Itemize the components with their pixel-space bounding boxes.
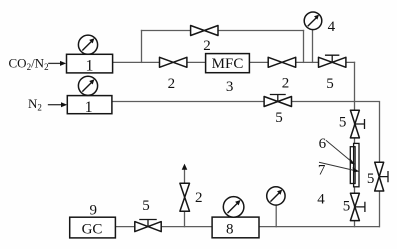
svg-text:2: 2 — [168, 76, 176, 92]
leader line for label 6 — [326, 141, 355, 165]
valve 2 after box 1 — [160, 57, 187, 67]
cylinder regulator box 1 (N2) — [67, 96, 112, 114]
GC box 9 — [70, 217, 116, 238]
wire bypass top line — [142, 30, 304, 32]
svg-text:1: 1 — [85, 99, 93, 116]
svg-text:5: 5 — [339, 114, 347, 130]
wire gauge stem bottom — [275, 205, 277, 227]
svg-text:3: 3 — [226, 79, 234, 95]
MFC box 3 — [206, 54, 250, 73]
valve 5 on N2 line (with handle) — [264, 95, 291, 107]
svg-text:5: 5 — [367, 171, 375, 187]
pressure gauge on box 1 top — [78, 35, 97, 54]
cylinder regulator box 1 (CO2/N2) — [67, 54, 113, 73]
valve 5 vertical right branch (with side handle) — [375, 162, 388, 191]
svg-text:2: 2 — [195, 190, 203, 206]
svg-text:8: 8 — [226, 222, 234, 238]
wire right cell branch vertical — [354, 62, 356, 226]
svg-text:4: 4 — [317, 192, 325, 208]
svg-text:GC: GC — [82, 221, 103, 237]
pressure gauge on box 8 top — [223, 197, 244, 218]
svg-text:6: 6 — [319, 136, 327, 152]
svg-text:5: 5 — [142, 198, 150, 214]
valve 2 on bypass top line — [191, 26, 218, 36]
inlet arrow N2 — [49, 102, 68, 107]
leader line for label 7 — [320, 162, 360, 172]
valve 5 after junction (with handle) — [319, 55, 346, 67]
wire bottom line box8 to right — [259, 226, 379, 228]
inlet arrow CO2/N2 — [49, 61, 66, 66]
svg-text:9: 9 — [89, 202, 97, 218]
pressure gauge 4 top right — [304, 12, 322, 30]
svg-text:2: 2 — [203, 38, 211, 54]
vent valve 2 vertical — [180, 183, 190, 211]
vent arrow — [182, 164, 188, 170]
svg-text:4: 4 — [328, 19, 336, 35]
svg-text:1: 1 — [86, 58, 94, 75]
wire main CO2 line — [113, 61, 355, 63]
svg-text:MFC: MFC — [212, 56, 244, 72]
svg-text:CO2/N2: CO2/N2 — [9, 56, 49, 73]
wire riser left to bypass — [141, 31, 143, 63]
svg-text:2: 2 — [282, 76, 290, 92]
view cell outer jacket 7 — [350, 147, 355, 184]
svg-text:5: 5 — [343, 199, 351, 215]
valve 2 after MFC — [268, 57, 296, 67]
pressure gauge on box 1 (N2) top — [78, 76, 97, 95]
wire riser right of bypass — [303, 31, 305, 63]
svg-text:5: 5 — [275, 110, 283, 126]
valve 5 vertical below cell (with side handle) — [350, 193, 365, 220]
pressure gauge bottom right of box 8 — [267, 187, 285, 205]
valve 5 vertical above cell (with side handle) — [350, 110, 364, 138]
view cell inner tube 6 — [354, 143, 359, 186]
reactor box 8 — [212, 217, 259, 238]
svg-text:N2: N2 — [28, 96, 42, 113]
valve 5 before GC (with handle) — [135, 220, 161, 232]
wire vent stem — [184, 170, 186, 227]
svg-text:5: 5 — [326, 76, 334, 92]
svg-text:7: 7 — [318, 163, 326, 179]
wire bottom line GC to box8 — [115, 226, 212, 228]
wire N2 line — [112, 102, 380, 227]
wire gauge 4 stem — [312, 30, 314, 63]
